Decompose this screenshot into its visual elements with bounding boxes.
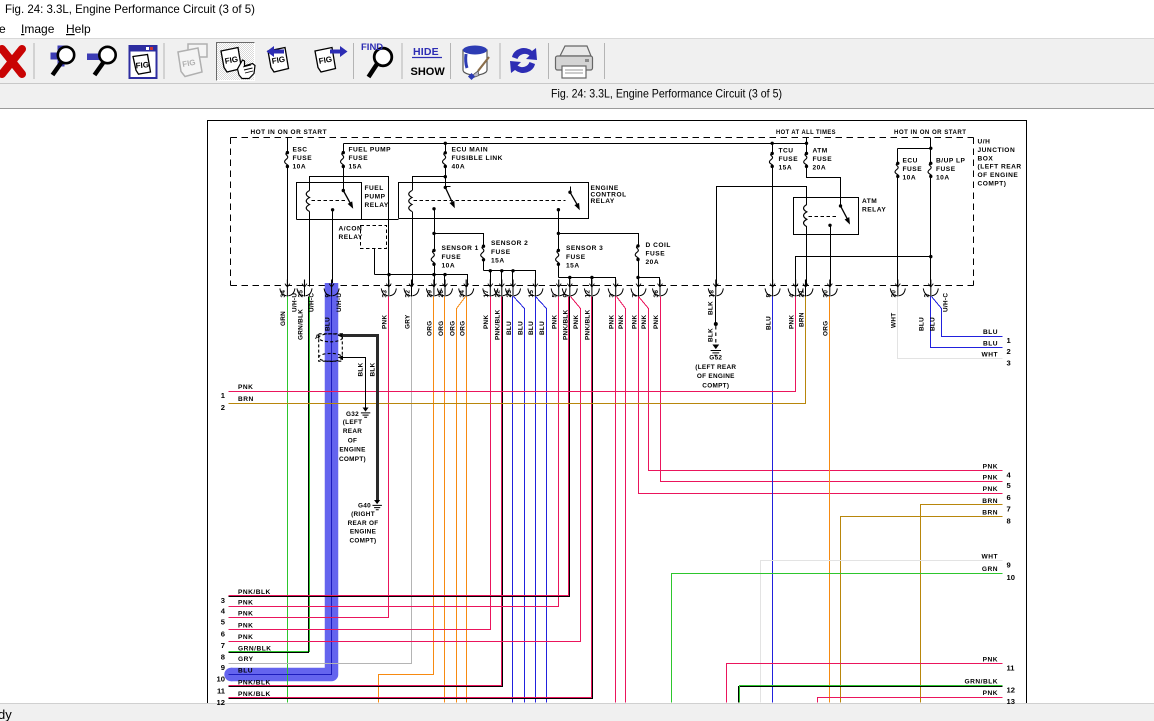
pin 26 at x=445 xyxy=(438,280,453,297)
svg-text:PNK: PNK xyxy=(983,464,998,471)
pin 34 at x=466.2 xyxy=(459,280,474,297)
toolbar select-figure icon (pressed) xyxy=(217,43,256,81)
svg-text:23: 23 xyxy=(506,290,513,298)
svg-text:FUSE: FUSE xyxy=(566,254,586,261)
svg-text:PNK/BLK: PNK/BLK xyxy=(495,309,502,340)
svg-text:10A: 10A xyxy=(442,263,456,270)
wire BLU pin23 straight xyxy=(512,297,514,703)
svg-text:WHT: WHT xyxy=(981,352,998,359)
svg-text:BLU: BLU xyxy=(517,321,524,335)
svg-text:Image: Image xyxy=(21,22,55,36)
svg-text:10: 10 xyxy=(1007,573,1015,582)
ground G52 wire from pin 18 xyxy=(715,297,717,325)
svg-text:GRN/BLK: GRN/BLK xyxy=(297,309,304,340)
svg-text:OF ENGINE: OF ENGINE xyxy=(697,373,735,380)
ESC fuse 10A xyxy=(287,138,289,153)
svg-text:RELAY: RELAY xyxy=(591,198,615,205)
svg-text:BLU: BLU xyxy=(506,321,513,335)
wire GRN/BLK right pin 12 (black) xyxy=(739,687,1003,703)
TCU fuse 15A xyxy=(772,144,774,154)
pin 5 at x=558.7 xyxy=(551,280,566,297)
pin 3 at x=615.7 xyxy=(608,280,623,297)
toolbar close X icon xyxy=(2,49,22,74)
svg-text:PNK: PNK xyxy=(238,623,253,630)
svg-text:PNK: PNK xyxy=(552,315,559,329)
status bar xyxy=(0,704,1154,721)
svg-text:ECU MAIN: ECU MAIN xyxy=(452,147,489,154)
svg-text:WHT: WHT xyxy=(981,554,998,561)
svg-text:BOX: BOX xyxy=(978,155,994,162)
svg-text:dy: dy xyxy=(0,707,12,721)
svg-text:ESC: ESC xyxy=(293,147,308,154)
wire GRN/BLK pin25 to left pin 8 (black) xyxy=(229,297,309,653)
pin 9 at x=331.6 xyxy=(324,280,339,297)
svg-text:BLU: BLU xyxy=(324,317,331,331)
wire PNK/BLK pin9 to left pin 3 (red) xyxy=(229,297,569,596)
sensor rail node wire xyxy=(375,275,468,287)
svg-text:ORG: ORG xyxy=(438,321,445,336)
svg-text:(LEFT REAR: (LEFT REAR xyxy=(695,364,736,371)
wire BLU pin9 thin line xyxy=(229,297,332,675)
wire PNK/BLK pin22 to left pin 11 (red) xyxy=(229,297,502,686)
pin 29 at x=433.9 xyxy=(426,280,441,297)
ECR coil to pin 32 wire xyxy=(412,212,414,287)
svg-text:15A: 15A xyxy=(779,165,793,172)
svg-text:D COIL: D COIL xyxy=(646,242,671,249)
wire ORG pin26 xyxy=(444,297,446,703)
svg-text:PNK: PNK xyxy=(238,384,253,391)
wire BLU pin2 jog to right pin 1 xyxy=(932,297,1003,337)
svg-text:BRN: BRN xyxy=(798,312,805,327)
toolbar figure-window icon xyxy=(130,46,157,79)
svg-text:34: 34 xyxy=(459,290,466,298)
svg-text:PNK: PNK xyxy=(983,486,998,493)
wire PNK/BLK pin12 to left pin 12 (black) xyxy=(229,297,593,699)
svg-text:RELAY: RELAY xyxy=(365,202,389,209)
svg-text:TCU: TCU xyxy=(779,148,794,155)
toolbar find icon xyxy=(361,42,392,77)
toolbar zoom-out icon xyxy=(87,47,116,75)
svg-text:8: 8 xyxy=(1007,516,1011,525)
svg-text:10A: 10A xyxy=(936,175,950,182)
D coil fuse 20A xyxy=(559,234,639,246)
svg-text:A: A xyxy=(315,334,320,341)
svg-text:BLU: BLU xyxy=(539,321,546,335)
svg-text:U/H-C: U/H-C xyxy=(942,293,949,312)
svg-text:PNK: PNK xyxy=(382,315,389,329)
toolbar redraw/clean icon xyxy=(463,46,489,81)
svg-text:PNK: PNK xyxy=(983,657,998,664)
svg-text:22: 22 xyxy=(495,290,502,298)
svg-text:10A: 10A xyxy=(293,164,307,171)
svg-text:HOT IN ON OR START: HOT IN ON OR START xyxy=(251,129,328,136)
sensor 2 fuse 15A xyxy=(435,234,484,247)
svg-text:COMPT): COMPT) xyxy=(349,537,376,544)
svg-text:10A: 10A xyxy=(903,175,917,182)
svg-text:GRY: GRY xyxy=(404,314,411,329)
svg-text:JUNCTION: JUNCTION xyxy=(978,147,1016,154)
svg-text:G32: G32 xyxy=(346,411,359,418)
pin 33 at x=388.8 xyxy=(381,280,396,297)
svg-text:U/H-U: U/H-U xyxy=(336,293,343,312)
wire PNK pin3 jog xyxy=(617,297,626,703)
svg-text:8: 8 xyxy=(221,652,225,661)
svg-text:34: 34 xyxy=(280,290,287,298)
svg-text:PNK: PNK xyxy=(631,315,638,329)
svg-text:ENGINE: ENGINE xyxy=(339,447,366,454)
pin 25 at x=304.5 xyxy=(297,280,312,297)
svg-text:Fig. 24: 3.3L, Engine Performa: Fig. 24: 3.3L, Engine Performance Circui… xyxy=(551,87,782,101)
wire PNK pin33 to left pin 5 xyxy=(229,297,389,618)
svg-text:18: 18 xyxy=(709,290,716,298)
svg-text:G52: G52 xyxy=(709,355,722,362)
svg-text:SENSOR 1: SENSOR 1 xyxy=(442,245,479,252)
svg-text:FUSE: FUSE xyxy=(936,166,956,173)
wire PNK right pin 11 xyxy=(727,664,1003,703)
wire PNK/BLK pin9 to left pin 3 (black) xyxy=(229,297,570,597)
svg-text:HOT AT ALL TIMES: HOT AT ALL TIMES xyxy=(776,129,836,136)
svg-text:BLU: BLU xyxy=(528,321,535,335)
svg-text:2: 2 xyxy=(221,403,225,412)
svg-text:(LEFT: (LEFT xyxy=(343,419,363,426)
svg-text:15A: 15A xyxy=(349,164,363,171)
svg-text:FUSE: FUSE xyxy=(293,155,313,162)
svg-text:6: 6 xyxy=(1007,493,1011,502)
wire PNK pin7 jog to right pin 4 xyxy=(639,297,1003,471)
wire BRN right pin 7 xyxy=(921,505,1003,703)
engine control relay U2 xyxy=(399,183,589,219)
svg-text:BLK: BLK xyxy=(708,301,715,315)
svg-text:ECU: ECU xyxy=(903,158,918,165)
pin 20 at x=897.8 xyxy=(890,280,905,297)
svg-text:FUEL PUMP: FUEL PUMP xyxy=(349,147,392,154)
pin 32 at x=411.5 xyxy=(404,280,419,297)
svg-text:BLU: BLU xyxy=(238,668,253,675)
wire BLU pin23 jog xyxy=(514,297,525,703)
svg-text:13: 13 xyxy=(1007,697,1015,706)
svg-text:7: 7 xyxy=(221,641,225,650)
svg-text:ORG: ORG xyxy=(823,321,830,336)
pin 30 at x=829.8 xyxy=(822,280,837,297)
sensor 3 fuse 15A xyxy=(557,232,560,235)
svg-text:PUMP: PUMP xyxy=(365,194,386,201)
svg-text:10: 10 xyxy=(217,675,225,684)
svg-text:20: 20 xyxy=(891,290,898,298)
svg-text:ENGINE: ENGINE xyxy=(350,529,377,536)
svg-text:G40: G40 xyxy=(358,503,371,510)
svg-text:FUSE: FUSE xyxy=(442,254,462,261)
svg-text:e: e xyxy=(0,22,6,36)
svg-text:PNK: PNK xyxy=(653,315,660,329)
wire PNK pin36 to right pin 5 xyxy=(661,297,1003,482)
svg-text:PNK: PNK xyxy=(983,690,998,697)
svg-text:PNK: PNK xyxy=(618,315,625,329)
wire GRN/BLK pin25 to left pin 8 (green) xyxy=(229,297,310,652)
svg-text:A/CON: A/CON xyxy=(339,226,363,233)
svg-text:2: 2 xyxy=(1007,347,1011,356)
svg-text:FUSIBLE LINK: FUSIBLE LINK xyxy=(452,155,503,162)
svg-text:OF: OF xyxy=(348,437,357,444)
wire ORG pin30 xyxy=(829,297,831,703)
toolbar zoom-in icon xyxy=(51,46,75,76)
svg-text:7: 7 xyxy=(1007,505,1011,514)
svg-text:PNK: PNK xyxy=(609,315,616,329)
wire ORG pin29 xyxy=(379,297,434,703)
wire BLU pin15 straight xyxy=(535,297,537,703)
svg-text:ORG: ORG xyxy=(449,321,456,336)
svg-text:FUEL: FUEL xyxy=(365,185,384,192)
svg-text:PNK/BLK: PNK/BLK xyxy=(563,309,570,340)
svg-text:BLU: BLU xyxy=(983,329,998,336)
svg-text:BRN: BRN xyxy=(238,396,254,403)
svg-text:PNK/BLK: PNK/BLK xyxy=(585,309,592,340)
wire BLU pin15 jog xyxy=(536,297,547,703)
svg-text:GRN/BLK: GRN/BLK xyxy=(964,679,998,686)
svg-text:Fig. 24: 3.3L, Engine Performa: Fig. 24: 3.3L, Engine Performance Circui… xyxy=(5,2,255,16)
svg-text:11: 11 xyxy=(1007,663,1016,672)
A/CON relay output wire xyxy=(374,249,376,275)
svg-text:3: 3 xyxy=(221,596,225,605)
svg-text:(RIGHT: (RIGHT xyxy=(351,511,375,518)
svg-text:RELAY: RELAY xyxy=(339,234,363,241)
svg-text:OF ENGINE: OF ENGINE xyxy=(978,172,1019,179)
svg-text:PNK: PNK xyxy=(788,315,795,329)
U/H junction box (dashed) xyxy=(231,138,974,286)
svg-text:SENSOR 3: SENSOR 3 xyxy=(566,245,603,252)
svg-text:U/H: U/H xyxy=(978,139,991,146)
toolbar previous-figure icon xyxy=(267,46,289,72)
ECU fuse 10A and B/UP LP fuse 10A xyxy=(930,138,932,149)
ground G52 xyxy=(712,345,719,350)
wire GRN/BLK right pin 12 (green) xyxy=(740,686,1003,703)
svg-text:FIG: FIG xyxy=(135,60,149,70)
wire ORG pin34 straight xyxy=(466,297,468,703)
wire PNK pin9 jog to left pin 7 xyxy=(229,297,581,642)
svg-text:30: 30 xyxy=(823,290,830,298)
svg-text:15A: 15A xyxy=(491,258,505,265)
pin 36 at x=660 xyxy=(653,280,668,297)
svg-text:25: 25 xyxy=(297,290,304,298)
pin 12 at x=591.9 xyxy=(584,280,599,297)
svg-text:BLK: BLK xyxy=(708,328,715,342)
svg-text:BRN: BRN xyxy=(982,510,998,517)
figure label bar xyxy=(0,84,1154,109)
wire GRN pin34 xyxy=(287,297,289,703)
svg-text:21: 21 xyxy=(798,290,805,298)
svg-text:ORG: ORG xyxy=(427,321,434,336)
svg-text:FUSE: FUSE xyxy=(903,166,923,173)
toolbar print icon xyxy=(556,46,593,78)
svg-text:ATM: ATM xyxy=(862,198,877,205)
pin 4 at x=795.6 xyxy=(788,280,803,297)
shield wire to ground G32 xyxy=(338,355,344,359)
diagram canvas border xyxy=(208,121,1027,704)
svg-text:PNK: PNK xyxy=(641,315,648,329)
ECU main fusible link 40A xyxy=(445,144,447,153)
svg-text:(LEFT REAR: (LEFT REAR xyxy=(978,164,1022,171)
wire PNK pin5 to left pin 4 xyxy=(229,297,559,607)
svg-text:FUSE: FUSE xyxy=(813,156,833,163)
ATM fuse 20A xyxy=(806,144,808,154)
inline connector A on highlighted wire xyxy=(319,334,343,362)
pin 15 at x=535.4 xyxy=(528,280,543,297)
svg-text:REAR OF: REAR OF xyxy=(348,520,379,527)
svg-text:3: 3 xyxy=(1007,358,1011,367)
svg-text:ORG: ORG xyxy=(460,321,467,336)
wire WHT right pin 9 xyxy=(761,561,1003,703)
svg-text:6: 6 xyxy=(221,630,225,639)
pin 34 at x=287.4 xyxy=(280,280,295,297)
wire ORG pin34 jog xyxy=(457,297,466,703)
B/UP LP output wire to pin 4 xyxy=(796,257,931,287)
svg-text:Help: Help xyxy=(66,22,91,36)
svg-text:33: 33 xyxy=(382,290,389,298)
svg-text:FUSE: FUSE xyxy=(349,155,369,162)
wire PNK pin17 to left pin 6 xyxy=(229,297,491,630)
shield wire to ground G40 (thick) xyxy=(338,333,344,337)
svg-text:PNK: PNK xyxy=(483,315,490,329)
wire PNK/BLK pin12 to left pin 12 (red) xyxy=(229,297,592,698)
svg-text:B/UP LP: B/UP LP xyxy=(936,158,965,165)
pin 8 at x=772.6 xyxy=(765,280,780,297)
svg-text:ATM: ATM xyxy=(813,148,828,155)
toolbar hide/show icon xyxy=(411,46,446,78)
svg-text:BLU: BLU xyxy=(983,340,998,347)
highlighted selected wire BLU pin9 to left pin 10 xyxy=(231,283,332,675)
pin 23 at x=513 xyxy=(506,280,521,297)
fuel pump relay U1 xyxy=(297,183,362,220)
svg-text:20A: 20A xyxy=(646,259,660,266)
svg-text:PNK: PNK xyxy=(238,634,253,641)
svg-text:GRY: GRY xyxy=(238,656,254,663)
svg-text:15A: 15A xyxy=(566,263,580,270)
FP relay coil to pin 25 wire xyxy=(309,212,311,287)
svg-text:9: 9 xyxy=(1007,561,1011,570)
svg-text:PNK/BLK: PNK/BLK xyxy=(238,679,271,686)
svg-text:2: 2 xyxy=(924,294,931,298)
svg-text:15: 15 xyxy=(528,290,535,298)
svg-text:12: 12 xyxy=(1007,686,1015,695)
svg-text:FUSE: FUSE xyxy=(646,251,666,258)
svg-text:WHT: WHT xyxy=(891,313,898,328)
svg-text:BLU: BLU xyxy=(919,317,926,331)
svg-text:REAR: REAR xyxy=(343,428,362,435)
svg-text:BLK: BLK xyxy=(357,362,364,376)
svg-text:26: 26 xyxy=(438,290,445,298)
svg-text:SHOW: SHOW xyxy=(411,66,446,78)
svg-text:RELAY: RELAY xyxy=(862,207,886,214)
svg-text:4: 4 xyxy=(788,294,795,298)
svg-text:PNK: PNK xyxy=(983,474,998,481)
svg-text:9: 9 xyxy=(221,663,225,672)
svg-text:FUSE: FUSE xyxy=(779,156,799,163)
wire BLU pin8 xyxy=(772,297,774,703)
svg-text:BLU: BLU xyxy=(765,316,772,330)
svg-text:9: 9 xyxy=(563,294,570,298)
svg-text:GRN/BLK: GRN/BLK xyxy=(238,645,272,652)
svg-text:40A: 40A xyxy=(452,164,466,171)
wire BLU pin2 to right pin 2 xyxy=(931,297,1003,348)
svg-text:8: 8 xyxy=(765,294,772,298)
svg-text:BRN: BRN xyxy=(982,498,998,505)
svg-text:PNK/BLK: PNK/BLK xyxy=(238,589,271,596)
toolbar next-figure icon xyxy=(315,46,348,72)
wire ECR coil feed xyxy=(413,177,446,191)
pin 7 at x=638.5 xyxy=(631,280,646,297)
svg-text:COMPT): COMPT) xyxy=(978,181,1007,188)
svg-text:17: 17 xyxy=(483,290,490,298)
wire PNK/BLK pin22 to left pin 11 (black) xyxy=(229,297,503,687)
toolbar background xyxy=(0,39,1154,83)
pin 17 at x=490.3 xyxy=(483,280,498,297)
svg-text:7: 7 xyxy=(631,294,638,298)
svg-text:12: 12 xyxy=(217,698,225,707)
wire PNK pin4 to left pin 1 xyxy=(229,297,796,392)
ground G40 xyxy=(374,500,380,504)
svg-text:FIND: FIND xyxy=(361,42,383,53)
svg-text:GRN: GRN xyxy=(982,566,998,573)
svg-text:FUSE: FUSE xyxy=(491,249,511,256)
svg-text:COMPT): COMPT) xyxy=(702,382,729,389)
sensor 1 fuse 10A xyxy=(432,232,435,235)
svg-text:GRN: GRN xyxy=(280,311,287,326)
svg-text:HOT IN ON OR START: HOT IN ON OR START xyxy=(894,129,967,136)
ATM relay U3 xyxy=(794,198,859,235)
toolbar refresh icon xyxy=(510,48,537,73)
pin 18 at x=715.8 xyxy=(708,280,723,297)
wire fuel pump relay feed xyxy=(310,177,389,275)
toolbar disabled figure icon xyxy=(178,44,207,77)
svg-text:BLU: BLU xyxy=(929,317,936,331)
svg-text:PNK/BLK: PNK/BLK xyxy=(238,691,271,698)
svg-text:COMPT): COMPT) xyxy=(339,456,366,463)
wire BRN right pin 8 xyxy=(841,517,1003,703)
wire GRY pin32 to left pin 9 xyxy=(229,297,412,664)
svg-text:BLK: BLK xyxy=(369,362,376,376)
ground G32 xyxy=(363,408,369,412)
svg-text:PNK: PNK xyxy=(238,611,253,618)
pin 9 at x=569.8 xyxy=(562,280,577,297)
svg-text:PNK: PNK xyxy=(573,315,580,329)
svg-text:9: 9 xyxy=(324,294,331,298)
svg-text:20A: 20A xyxy=(813,165,827,172)
svg-text:11: 11 xyxy=(217,686,226,695)
svg-text:12: 12 xyxy=(585,290,592,298)
wire PNK right pin 13 xyxy=(818,698,1003,703)
svg-text:3: 3 xyxy=(609,294,616,298)
svg-text:32: 32 xyxy=(404,290,411,298)
svg-text:5: 5 xyxy=(552,294,559,298)
wire GRN right pin 10 xyxy=(672,574,1003,703)
svg-text:SENSOR 2: SENSOR 2 xyxy=(491,240,528,247)
wire PNK pin7 straight to right pin 6 xyxy=(639,297,1003,494)
power bus HOT wires xyxy=(344,143,807,145)
wire WHT pin20 to right pin 3 xyxy=(898,297,1003,359)
svg-text:U/H-C: U/H-C xyxy=(309,293,316,312)
svg-text:36: 36 xyxy=(653,290,660,298)
svg-text:PNK: PNK xyxy=(238,600,253,607)
fuel pump fuse 15A xyxy=(343,144,345,153)
A/CON relay (dashed box) xyxy=(361,226,387,249)
svg-text:HIDE: HIDE xyxy=(413,46,439,58)
pin 21 at x=805.5 xyxy=(798,280,813,297)
wire BRN pin21 to left pin 2 xyxy=(229,297,806,404)
pin 22 at x=501.8 xyxy=(494,280,509,297)
wire PNK pin3 straight xyxy=(615,297,617,703)
svg-text:29: 29 xyxy=(427,290,434,298)
pin 2 at x=930.8 xyxy=(923,280,938,297)
